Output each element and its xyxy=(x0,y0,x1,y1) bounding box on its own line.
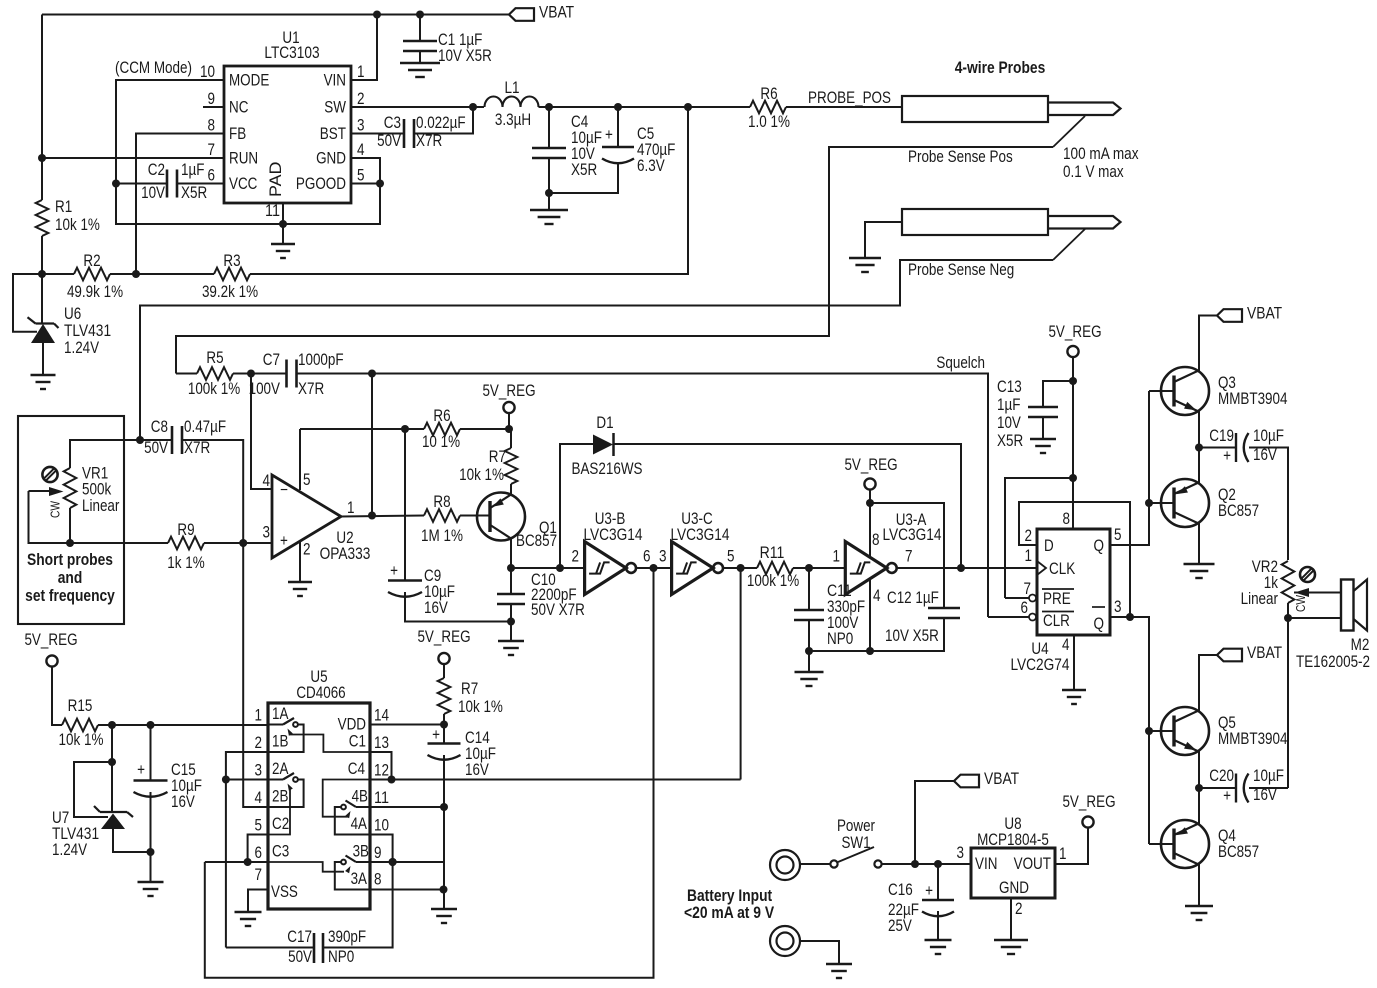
svg-text:+: + xyxy=(1223,447,1231,465)
svg-text:1B: 1B xyxy=(272,733,288,751)
svg-text:50V: 50V xyxy=(144,439,168,457)
svg-text:9: 9 xyxy=(374,844,382,862)
svg-text:3: 3 xyxy=(255,762,263,780)
svg-text:5V_REG: 5V_REG xyxy=(844,456,897,474)
svg-text:C4: C4 xyxy=(348,760,365,778)
svg-text:MMBT3904: MMBT3904 xyxy=(1218,390,1288,408)
svg-text:VIN: VIN xyxy=(324,72,346,90)
svg-text:3: 3 xyxy=(659,548,667,566)
svg-text:0.022µF: 0.022µF xyxy=(416,114,466,132)
svg-text:10: 10 xyxy=(200,63,215,81)
svg-text:R9: R9 xyxy=(177,521,194,539)
svg-text:6: 6 xyxy=(208,167,216,185)
svg-text:GND: GND xyxy=(999,879,1029,897)
svg-text:3.3µH: 3.3µH xyxy=(495,111,531,129)
svg-text:1.24V: 1.24V xyxy=(52,841,87,859)
svg-text:X5R: X5R xyxy=(997,432,1023,450)
svg-text:2: 2 xyxy=(303,541,311,559)
svg-text:C13: C13 xyxy=(997,378,1022,396)
svg-text:5V_REG: 5V_REG xyxy=(417,628,470,646)
svg-text:R3: R3 xyxy=(223,252,240,270)
svg-text:PRE: PRE xyxy=(1043,590,1071,608)
svg-text:3: 3 xyxy=(263,524,271,542)
svg-text:+: + xyxy=(1223,787,1231,805)
svg-text:C3: C3 xyxy=(384,114,401,132)
svg-text:U6: U6 xyxy=(64,305,81,323)
svg-text:X7R: X7R xyxy=(184,439,210,457)
svg-text:100k 1%: 100k 1% xyxy=(747,572,799,590)
svg-text:7: 7 xyxy=(905,548,913,566)
svg-text:+: + xyxy=(280,532,288,550)
svg-text:39.2k 1%: 39.2k 1% xyxy=(202,283,258,301)
svg-text:VBAT: VBAT xyxy=(539,4,574,22)
svg-text:50V: 50V xyxy=(377,132,401,150)
svg-text:Probe Sense Neg: Probe Sense Neg xyxy=(908,261,1014,279)
svg-text:X5R: X5R xyxy=(571,161,597,179)
svg-text:set frequency: set frequency xyxy=(25,587,115,605)
svg-text:PROBE_POS: PROBE_POS xyxy=(808,89,891,107)
svg-text:−: − xyxy=(280,481,288,499)
svg-text:X7R: X7R xyxy=(298,380,324,398)
svg-text:L1: L1 xyxy=(505,79,520,97)
svg-text:8: 8 xyxy=(872,531,880,549)
svg-text:2: 2 xyxy=(572,548,580,566)
svg-text:Power: Power xyxy=(837,817,876,835)
svg-text:1k 1%: 1k 1% xyxy=(167,554,204,572)
svg-text:C12 1µF: C12 1µF xyxy=(887,589,939,607)
svg-text:MCP1804-5: MCP1804-5 xyxy=(977,831,1049,849)
svg-text:BC857: BC857 xyxy=(516,532,557,550)
svg-text:4: 4 xyxy=(357,141,365,159)
svg-text:50V: 50V xyxy=(288,948,312,966)
svg-text:LVC2G74: LVC2G74 xyxy=(1010,656,1069,674)
svg-text:R7: R7 xyxy=(461,680,478,698)
svg-text:3: 3 xyxy=(357,117,365,135)
svg-text:49.9k 1%: 49.9k 1% xyxy=(67,283,123,301)
svg-text:NP0: NP0 xyxy=(328,948,354,966)
svg-text:Battery Input: Battery Input xyxy=(687,887,773,905)
svg-text:10V X5R: 10V X5R xyxy=(885,627,939,645)
svg-text:4A: 4A xyxy=(351,815,367,833)
svg-text:C20: C20 xyxy=(1209,767,1234,785)
svg-text:BC857: BC857 xyxy=(1218,502,1259,520)
svg-text:R5: R5 xyxy=(206,349,223,367)
svg-text:CW: CW xyxy=(48,500,63,518)
svg-text:2: 2 xyxy=(1025,527,1033,545)
svg-text:100k 1%: 100k 1% xyxy=(188,380,240,398)
svg-text:OPA333: OPA333 xyxy=(320,545,371,563)
svg-text:6: 6 xyxy=(643,548,651,566)
svg-text:6: 6 xyxy=(1021,599,1029,617)
svg-text:NP0: NP0 xyxy=(827,630,853,648)
svg-text:4B: 4B xyxy=(352,788,368,806)
svg-text:50V X7R: 50V X7R xyxy=(531,601,585,619)
svg-text:FB: FB xyxy=(229,125,246,143)
svg-text:+: + xyxy=(432,726,440,744)
svg-text:5V_REG: 5V_REG xyxy=(1048,323,1101,341)
svg-text:1: 1 xyxy=(1059,845,1067,863)
svg-text:10: 10 xyxy=(374,817,389,835)
svg-text:+: + xyxy=(137,761,145,779)
svg-text:100 mA max: 100 mA max xyxy=(1063,145,1139,163)
svg-text:Linear: Linear xyxy=(82,497,120,515)
svg-text:LVC3G14: LVC3G14 xyxy=(670,526,729,544)
svg-text:R7: R7 xyxy=(489,448,506,466)
svg-text:C2: C2 xyxy=(148,161,165,179)
svg-text:13: 13 xyxy=(374,734,389,752)
svg-text:2B: 2B xyxy=(272,788,288,806)
svg-text:LVC3G14: LVC3G14 xyxy=(882,526,941,544)
svg-text:X7R: X7R xyxy=(416,132,442,150)
svg-text:16V: 16V xyxy=(465,761,489,779)
svg-text:CLR: CLR xyxy=(1043,612,1070,630)
svg-text:(CCM Mode): (CCM Mode) xyxy=(115,59,192,77)
svg-text:25V: 25V xyxy=(888,917,912,935)
svg-text:500k: 500k xyxy=(82,481,112,499)
svg-text:16V: 16V xyxy=(1253,446,1277,464)
svg-text:5: 5 xyxy=(303,471,311,489)
svg-text:12: 12 xyxy=(374,762,389,780)
svg-text:C8: C8 xyxy=(151,418,168,436)
svg-text:RUN: RUN xyxy=(229,150,258,168)
svg-text:4: 4 xyxy=(1062,636,1070,654)
svg-text:R11: R11 xyxy=(760,544,785,562)
svg-text:R15: R15 xyxy=(68,697,93,715)
svg-text:D: D xyxy=(1044,537,1054,555)
svg-text:5V_REG: 5V_REG xyxy=(1062,793,1115,811)
svg-text:PAD: PAD xyxy=(267,161,285,197)
svg-text:3: 3 xyxy=(957,844,965,862)
svg-text:D1: D1 xyxy=(596,414,613,432)
svg-text:PGOOD: PGOOD xyxy=(296,175,346,193)
svg-text:C17: C17 xyxy=(287,928,312,946)
svg-text:C19: C19 xyxy=(1209,427,1234,445)
svg-text:C7: C7 xyxy=(263,351,280,369)
svg-text:Q: Q xyxy=(1094,537,1105,555)
svg-text:C1: C1 xyxy=(349,733,366,751)
svg-text:SW1: SW1 xyxy=(841,834,870,852)
svg-text:Short probes: Short probes xyxy=(27,551,113,569)
svg-text:16V: 16V xyxy=(424,599,448,617)
svg-text:100V: 100V xyxy=(249,380,280,398)
svg-text:6: 6 xyxy=(255,844,263,862)
svg-text:CW: CW xyxy=(1293,594,1308,612)
svg-text:7: 7 xyxy=(255,866,263,884)
svg-text:1.24V: 1.24V xyxy=(64,339,99,357)
svg-text:5V_REG: 5V_REG xyxy=(24,631,77,649)
svg-text:TLV431: TLV431 xyxy=(64,322,111,340)
svg-text:10k 1%: 10k 1% xyxy=(459,466,504,484)
svg-text:SW: SW xyxy=(324,99,346,117)
svg-text:BC857: BC857 xyxy=(1218,843,1259,861)
svg-text:Squelch: Squelch xyxy=(936,354,985,372)
svg-text:10k 1%: 10k 1% xyxy=(55,216,100,234)
svg-text:10V X5R: 10V X5R xyxy=(438,47,492,65)
svg-text:11: 11 xyxy=(265,202,280,220)
svg-text:2: 2 xyxy=(1015,900,1023,918)
svg-text:1: 1 xyxy=(1025,547,1033,565)
svg-text:4: 4 xyxy=(255,789,263,807)
svg-text:1: 1 xyxy=(347,499,355,517)
svg-text:6.3V: 6.3V xyxy=(637,157,665,175)
svg-text:VIN: VIN xyxy=(975,855,997,873)
svg-text:10 1%: 10 1% xyxy=(422,433,460,451)
svg-text:CLK: CLK xyxy=(1049,560,1075,578)
svg-text:R6: R6 xyxy=(760,85,777,103)
svg-text:GND: GND xyxy=(316,150,346,168)
svg-text:VBAT: VBAT xyxy=(1247,305,1282,323)
svg-text:LTC3103: LTC3103 xyxy=(264,44,319,62)
svg-text:X5R: X5R xyxy=(181,184,207,202)
svg-text:Probe Sense Pos: Probe Sense Pos xyxy=(908,148,1013,166)
svg-text:NC: NC xyxy=(229,99,249,117)
svg-text:<20 mA at 9 V: <20 mA at 9 V xyxy=(684,904,774,922)
svg-text:5: 5 xyxy=(357,167,365,185)
svg-text:10µF: 10µF xyxy=(1253,427,1284,445)
svg-text:MODE: MODE xyxy=(229,72,269,90)
svg-text:7: 7 xyxy=(208,141,216,159)
svg-text:0.47µF: 0.47µF xyxy=(184,418,226,436)
svg-text:8: 8 xyxy=(1063,510,1071,528)
svg-text:1: 1 xyxy=(833,548,841,566)
svg-text:1µF: 1µF xyxy=(997,396,1020,414)
svg-text:10k 1%: 10k 1% xyxy=(458,698,503,716)
svg-text:M2: M2 xyxy=(1351,636,1370,654)
svg-text:+: + xyxy=(925,882,933,900)
svg-text:CD4066: CD4066 xyxy=(296,684,345,702)
svg-text:R2: R2 xyxy=(83,252,100,270)
svg-text:and: and xyxy=(58,569,83,587)
svg-text:R6: R6 xyxy=(433,407,450,425)
svg-text:5: 5 xyxy=(1114,526,1122,544)
svg-text:C2: C2 xyxy=(272,815,289,833)
svg-text:1A: 1A xyxy=(272,705,288,723)
svg-text:BST: BST xyxy=(320,125,346,143)
svg-text:+: + xyxy=(605,126,613,144)
svg-text:10V: 10V xyxy=(997,414,1021,432)
svg-text:TE162005-2: TE162005-2 xyxy=(1296,653,1370,671)
svg-text:8: 8 xyxy=(208,117,216,135)
svg-text:BAS216WS: BAS216WS xyxy=(572,460,643,478)
svg-text:5: 5 xyxy=(255,817,263,835)
svg-text:3B: 3B xyxy=(353,843,369,861)
svg-text:3A: 3A xyxy=(351,870,367,888)
svg-text:9: 9 xyxy=(208,90,216,108)
svg-text:3: 3 xyxy=(1114,598,1122,616)
svg-text:VCC: VCC xyxy=(229,175,258,193)
svg-text:2: 2 xyxy=(255,734,263,752)
svg-text:R8: R8 xyxy=(433,493,450,511)
svg-text:16V: 16V xyxy=(1253,786,1277,804)
svg-text:1µF: 1µF xyxy=(181,161,204,179)
svg-text:VOUT: VOUT xyxy=(1014,855,1051,873)
svg-text:16V: 16V xyxy=(171,793,195,811)
svg-text:R1: R1 xyxy=(55,198,72,216)
svg-text:C16: C16 xyxy=(888,881,913,899)
svg-text:C3: C3 xyxy=(272,843,289,861)
svg-text:1M 1%: 1M 1% xyxy=(421,527,463,545)
svg-text:11: 11 xyxy=(374,789,389,807)
svg-text:VDD: VDD xyxy=(338,716,367,734)
svg-text:2: 2 xyxy=(357,90,365,108)
svg-text:VBAT: VBAT xyxy=(984,770,1019,788)
svg-text:1: 1 xyxy=(255,707,263,725)
svg-text:14: 14 xyxy=(374,707,389,725)
svg-text:1: 1 xyxy=(357,63,365,81)
svg-text:1000pF: 1000pF xyxy=(298,351,344,369)
svg-text:LVC3G14: LVC3G14 xyxy=(583,526,642,544)
svg-text:VSS: VSS xyxy=(271,883,298,901)
svg-text:2A: 2A xyxy=(272,760,288,778)
svg-text:10k 1%: 10k 1% xyxy=(59,731,104,749)
svg-text:VBAT: VBAT xyxy=(1247,644,1282,662)
svg-text:4-wire Probes: 4-wire Probes xyxy=(955,59,1046,77)
svg-text:Q: Q xyxy=(1094,615,1105,633)
svg-text:5V_REG: 5V_REG xyxy=(482,382,535,400)
svg-text:390pF: 390pF xyxy=(328,928,366,946)
svg-text:4: 4 xyxy=(263,472,271,490)
svg-text:Linear: Linear xyxy=(1241,590,1279,608)
svg-text:8: 8 xyxy=(374,871,382,889)
svg-text:5: 5 xyxy=(727,548,735,566)
svg-text:+: + xyxy=(390,562,398,580)
svg-text:4: 4 xyxy=(873,587,881,605)
svg-text:MMBT3904: MMBT3904 xyxy=(1218,730,1288,748)
svg-text:1.0 1%: 1.0 1% xyxy=(748,113,790,131)
svg-text:0.1 V max: 0.1 V max xyxy=(1063,163,1124,181)
svg-text:10V: 10V xyxy=(141,184,165,202)
svg-text:10µF: 10µF xyxy=(1253,767,1284,785)
